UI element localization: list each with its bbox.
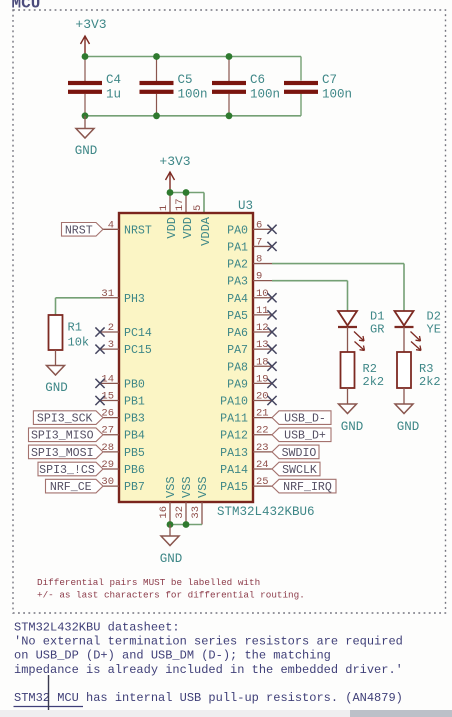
svg-text:VDD: VDD	[181, 217, 195, 239]
LED D1	[338, 311, 357, 326]
svg-text:32: 32	[174, 506, 186, 519]
svg-text:NRF_CE: NRF_CE	[50, 481, 92, 494]
svg-text:YE: YE	[427, 323, 441, 337]
svg-text:PA10: PA10	[220, 396, 248, 409]
global label SWCLK	[272, 462, 320, 476]
svg-text:2k2: 2k2	[363, 375, 385, 389]
svg-text:PB6: PB6	[124, 464, 145, 477]
svg-text:D1: D1	[370, 310, 384, 324]
svg-text:16: 16	[158, 506, 170, 519]
pin 26 PB3	[100, 417, 119, 419]
pin 4 NRST	[100, 228, 119, 230]
svg-text:D2: D2	[427, 310, 441, 324]
svg-text:GR: GR	[370, 323, 384, 337]
capacitor C6	[228, 57, 230, 84]
no-connect PC15	[95, 345, 104, 354]
global label NRST	[62, 223, 104, 237]
pin 20 PA10	[253, 400, 272, 402]
svg-text:SPI3_!CS: SPI3_!CS	[39, 464, 95, 477]
wire D2 to R3	[403, 327, 405, 352]
svg-text:GND: GND	[397, 420, 420, 434]
global label SPI3_!CS	[38, 462, 103, 476]
svg-text:SPI3_MISO: SPI3_MISO	[31, 430, 94, 443]
scrollbar track	[0, 710, 452, 717]
svg-text:MCU: MCU	[12, 0, 41, 13]
pin 33 VSS	[201, 502, 203, 525]
svg-text:13: 13	[256, 339, 269, 351]
svg-text:PB7: PB7	[124, 481, 145, 494]
svg-text:9: 9	[256, 271, 262, 283]
pin 9 PA3	[253, 280, 272, 282]
svg-text:+3V3: +3V3	[75, 17, 106, 32]
pin 16 VSS	[169, 502, 171, 525]
pin 13 PA7	[253, 348, 272, 350]
wire PA3 to D1	[272, 280, 348, 282]
pin 6 PA0	[253, 228, 272, 230]
svg-text:31: 31	[101, 288, 114, 300]
svg-text:5: 5	[192, 205, 204, 211]
pin 11 PA5	[253, 314, 272, 316]
svg-text:+3V3: +3V3	[159, 154, 190, 169]
svg-text:'No external termination serie: 'No external termination series resistor…	[14, 635, 403, 649]
global label USB_D+	[272, 428, 331, 442]
svg-text:33: 33	[190, 506, 202, 519]
svg-text:VSS: VSS	[196, 476, 210, 498]
global label USB_D-	[272, 411, 331, 425]
svg-text:SWCLK: SWCLK	[282, 464, 317, 477]
svg-text:PB1: PB1	[124, 396, 145, 409]
ground (R1)	[55, 350, 57, 366]
svg-text:U3: U3	[238, 199, 253, 213]
pin 15 PB1	[100, 400, 119, 402]
svg-text:12: 12	[256, 322, 269, 334]
svg-text:SPI3_SCK: SPI3_SCK	[37, 413, 93, 426]
pin 2 PC14	[100, 331, 119, 333]
svg-text:100n: 100n	[322, 88, 352, 102]
ground (MCU)	[169, 525, 171, 537]
svg-text:2: 2	[108, 322, 114, 334]
LED D2	[395, 311, 414, 326]
svg-text:19: 19	[256, 373, 269, 385]
pin 31 PH3	[100, 297, 119, 299]
svg-text:17: 17	[174, 198, 186, 211]
MCU U3 body	[119, 213, 253, 502]
svg-text:VSS: VSS	[180, 476, 194, 498]
svg-text:21: 21	[256, 408, 269, 420]
svg-text:23: 23	[256, 442, 269, 454]
pin 32 VSS	[185, 502, 187, 525]
pin 12 PA6	[253, 331, 272, 333]
svg-text:11: 11	[256, 305, 269, 317]
svg-text:PA12: PA12	[220, 430, 248, 443]
svg-text:10k: 10k	[68, 336, 90, 350]
capacitor C7	[284, 81, 318, 85]
svg-text:25: 25	[256, 476, 269, 488]
junction dots cap bank	[82, 53, 89, 60]
svg-text:SWDIO: SWDIO	[282, 447, 317, 460]
svg-text:PA3: PA3	[227, 276, 248, 289]
svg-text:4: 4	[108, 219, 114, 231]
svg-text:100n: 100n	[250, 88, 280, 102]
svg-text:PA5: PA5	[227, 310, 248, 323]
ground (cap bank)	[84, 116, 86, 129]
svg-text:NRF_IRQ: NRF_IRQ	[283, 481, 332, 494]
svg-text:PC14: PC14	[124, 327, 152, 340]
svg-text:NRST: NRST	[124, 224, 152, 237]
no-connect PA6	[267, 327, 276, 336]
svg-text:7: 7	[256, 236, 262, 248]
pin 10 PA4	[253, 297, 272, 299]
svg-text:PA14: PA14	[220, 464, 248, 477]
svg-text:USB_D-: USB_D-	[284, 413, 326, 426]
wire PA2 to D2	[272, 263, 404, 265]
pin 25 PA15	[253, 485, 272, 487]
svg-text:PA13: PA13	[220, 447, 248, 460]
pin 22 PA12	[253, 434, 272, 436]
resistor R2	[341, 352, 355, 388]
wire VSS join	[170, 524, 202, 526]
svg-text:3: 3	[108, 339, 114, 351]
pin 14 PB0	[100, 382, 119, 384]
svg-text:8: 8	[256, 254, 262, 266]
svg-text:PA8: PA8	[227, 361, 248, 374]
svg-text:PA7: PA7	[227, 344, 248, 357]
svg-text:PB3: PB3	[124, 413, 145, 426]
no-connect PA4	[267, 293, 276, 302]
svg-text:VDD: VDD	[165, 217, 179, 239]
wire D1 to R2	[347, 327, 349, 352]
svg-text:SPI3_MOSI: SPI3_MOSI	[31, 447, 94, 460]
svg-text:PA11: PA11	[220, 413, 248, 426]
underline	[14, 706, 84, 708]
svg-text:PC15: PC15	[124, 344, 152, 357]
svg-text:PB0: PB0	[124, 378, 145, 391]
svg-text:GND: GND	[45, 381, 68, 395]
svg-text:C4: C4	[106, 73, 121, 87]
global label SPI3_MOSI	[29, 445, 104, 459]
junction VDD pins	[167, 189, 174, 196]
svg-text:R2: R2	[363, 362, 377, 376]
capacitor C5	[156, 57, 158, 84]
svg-text:2k2: 2k2	[419, 375, 441, 389]
power +3V3 (MCU)	[169, 172, 171, 193]
svg-text:GND: GND	[341, 420, 364, 434]
wire VDD rail	[170, 192, 204, 194]
no-connect PB0	[95, 379, 104, 388]
svg-text:Differential pairs MUST be lab: Differential pairs MUST be labelled with	[37, 577, 260, 588]
no-connect PA5	[267, 310, 276, 319]
no-connect PA10	[267, 396, 276, 405]
svg-text:PA4: PA4	[227, 293, 248, 306]
global label NRF_CE	[46, 479, 104, 493]
power +3V3 (cap bank)	[84, 36, 86, 57]
svg-text:GND: GND	[160, 552, 183, 566]
svg-text:100n: 100n	[178, 88, 208, 102]
svg-text:PA15: PA15	[220, 481, 248, 494]
global label SPI3_SCK	[33, 411, 103, 425]
pin 27 PB4	[100, 434, 119, 436]
no-connect PC14	[95, 327, 104, 336]
wire top rail	[85, 56, 301, 58]
global label SWDIO	[272, 445, 319, 459]
pin 21 PA11	[253, 417, 272, 419]
svg-text:R1: R1	[68, 321, 82, 335]
svg-text:1u: 1u	[106, 88, 121, 102]
pin 7 PA1	[253, 245, 272, 247]
svg-text:impedance is already included: impedance is already included in the emb…	[14, 663, 403, 677]
capacitor C4	[84, 57, 86, 84]
ground (R3)	[403, 388, 405, 404]
pin 8 PA2	[253, 263, 272, 265]
svg-text:6: 6	[256, 219, 262, 231]
pin 29 PB6	[100, 468, 119, 470]
svg-text:R3: R3	[419, 362, 433, 376]
no-connect PB1	[95, 396, 104, 405]
svg-text:GND: GND	[75, 144, 98, 158]
svg-text:1: 1	[158, 205, 170, 211]
pin 18 PA8	[253, 365, 272, 367]
no-connect PA1	[267, 242, 276, 251]
svg-text:USB_D+: USB_D+	[284, 430, 326, 443]
pin 23 PA13	[253, 451, 272, 453]
wire bottom rail	[85, 115, 301, 117]
svg-text:VDDA: VDDA	[199, 216, 213, 246]
no-connect PA9	[267, 379, 276, 388]
text cursor caret	[48, 675, 50, 710]
svg-text:PA1: PA1	[227, 241, 248, 254]
pin 24 PA14	[253, 468, 272, 470]
svg-text:PH3: PH3	[124, 293, 145, 306]
svg-text:PB5: PB5	[124, 447, 145, 460]
pin 28 PB5	[100, 451, 119, 453]
svg-text:10: 10	[256, 288, 269, 300]
wire C7 branch	[300, 57, 302, 81]
svg-text:PB4: PB4	[124, 430, 145, 443]
svg-text:STM32 MCU has internal USB pul: STM32 MCU has internal USB pull-up resis…	[14, 691, 403, 705]
svg-text:PA9: PA9	[227, 378, 248, 391]
svg-text:20: 20	[256, 391, 269, 403]
svg-text:PA6: PA6	[227, 327, 248, 340]
svg-text:+/- as last characters for dif: +/- as last characters for differential …	[37, 590, 305, 601]
pin 19 PA9	[253, 382, 272, 384]
no-connect PA0	[267, 225, 276, 234]
no-connect PA8	[267, 362, 276, 371]
scrollbar thumb	[350, 710, 452, 717]
svg-text:NRST: NRST	[65, 224, 93, 237]
svg-text:STM32L432KBU datasheet:: STM32L432KBU datasheet:	[14, 620, 180, 634]
svg-text:22: 22	[256, 425, 269, 437]
svg-text:C7: C7	[322, 73, 337, 87]
pin 30 PB7	[100, 485, 119, 487]
resistor R3	[397, 352, 411, 388]
svg-text:on USB_DP (D+) and USB_DM (D-): on USB_DP (D+) and USB_DM (D-); the matc…	[14, 649, 331, 663]
global label NRF_IRQ	[272, 479, 336, 493]
wire PH3 to R1	[56, 297, 101, 299]
svg-text:C5: C5	[178, 73, 193, 87]
pin 3 PC15	[100, 348, 119, 350]
ground (R2)	[347, 388, 349, 404]
global label SPI3_MISO	[29, 428, 104, 442]
svg-text:24: 24	[256, 459, 269, 471]
resistor R1	[49, 315, 63, 350]
svg-text:PA0: PA0	[227, 224, 248, 237]
no-connect PA7	[267, 345, 276, 354]
svg-text:PA2: PA2	[227, 259, 248, 272]
svg-text:VSS: VSS	[164, 476, 178, 498]
svg-text:18: 18	[256, 356, 269, 368]
svg-text:C6: C6	[250, 73, 265, 87]
svg-text:STM32L432KBU6: STM32L432KBU6	[217, 505, 315, 519]
